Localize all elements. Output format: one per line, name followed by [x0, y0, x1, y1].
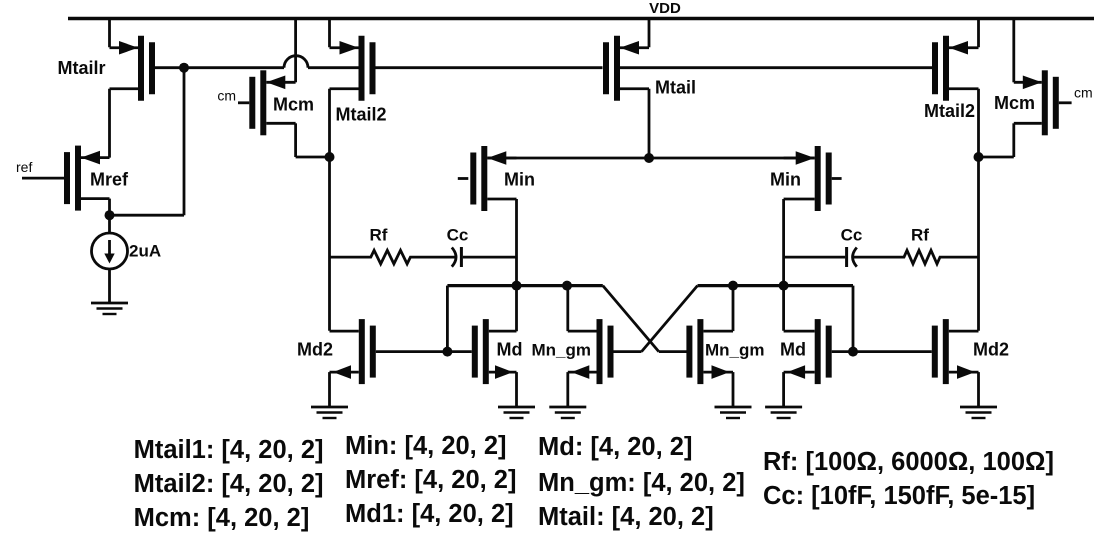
- svg-text:Mtail1: [4, 20, 2]: Mtail1: [4, 20, 2]: [134, 436, 324, 464]
- ground below Mn_gm left: [549, 407, 586, 418]
- svg-text:Mtailr: Mtailr: [57, 58, 105, 78]
- transistor Mtail: [603, 19, 696, 101]
- junction left cascode node: [325, 152, 335, 162]
- label component values column 4: [763, 448, 1054, 510]
- svg-text:VDD: VDD: [649, 0, 681, 17]
- wire node to feedback riser: [110, 214, 185, 217]
- wire right bus drop to gate node: [852, 286, 855, 352]
- label device sizes column 2: [345, 432, 516, 528]
- wire bias line segment Mtail2 to Mtail: [376, 66, 603, 69]
- svg-text:Cc: Cc: [841, 226, 863, 245]
- svg-text:Mn_gm: Mn_gm: [705, 341, 765, 360]
- wire left output bus: [447, 284, 602, 287]
- current source I1 2uA: [92, 215, 162, 303]
- transistor Min left: [458, 146, 535, 211]
- wire cross couple right bus to left Mn_gm gate: [614, 286, 698, 352]
- junction right bus Min drain: [779, 281, 789, 291]
- ground below Md2 left: [311, 407, 348, 418]
- svg-text:Mtail2: Mtail2: [924, 101, 975, 121]
- svg-text:2uA: 2uA: [129, 242, 161, 261]
- junction left bus Mn_gm drain: [562, 281, 572, 291]
- svg-text:Cc: Cc: [447, 226, 469, 245]
- svg-text:Md: [4, 20, 2]: Md: [4, 20, 2]: [538, 433, 692, 461]
- wire Mtail2 right drain down: [977, 89, 980, 157]
- svg-text:Mtail: [4, 20, 2]: Mtail: [4, 20, 2]: [538, 503, 714, 531]
- resistor Rf left: [330, 226, 456, 264]
- transistor Mcm left: [238, 19, 314, 136]
- label ref: [16, 159, 32, 175]
- label device sizes column 3: [538, 433, 745, 531]
- svg-text:Rf: Rf: [911, 226, 929, 245]
- svg-text:cm: cm: [217, 88, 236, 104]
- svg-text:Min: Min: [504, 170, 535, 190]
- wire Mcm right drain down: [979, 123, 1014, 157]
- svg-text:cm: cm: [1074, 85, 1093, 101]
- svg-text:Mcm: Mcm: [273, 95, 314, 115]
- svg-text:Min: [4, 20, 2]: Min: [4, 20, 2]: [345, 432, 507, 460]
- svg-text:Md: Md: [497, 340, 523, 360]
- transistor Mtailr: [57, 19, 155, 101]
- junction tail node: [644, 153, 654, 163]
- svg-text:Mtail2: [4, 20, 2]: Mtail2: [4, 20, 2]: [134, 470, 324, 498]
- svg-text:Min: Min: [770, 170, 801, 190]
- ground below Md left: [498, 407, 535, 418]
- svg-text:Md2: Md2: [297, 340, 333, 360]
- wire gate line Md right to Md2 right: [832, 350, 932, 353]
- wire Mref drain down to node: [108, 199, 111, 216]
- transistor Md2 right: [932, 319, 1009, 407]
- wire feedback riser to bias node: [183, 68, 186, 216]
- svg-text:Rf: Rf: [370, 226, 388, 245]
- wire right cascode vertical: [977, 157, 980, 331]
- ground below 2uA source: [91, 303, 128, 314]
- svg-text:Mcm: Mcm: [994, 93, 1035, 113]
- wire Min left drain vertical: [515, 199, 518, 331]
- junction bias node: [179, 63, 189, 73]
- wire hop over Mcm source wire: [284, 56, 308, 68]
- capacitor Cc left: [447, 226, 517, 268]
- svg-text:Mtail: Mtail: [655, 78, 696, 98]
- junction left bus Min drain: [512, 281, 522, 291]
- wire left bus drop to gate node: [446, 286, 449, 352]
- net VDD rail: [68, 17, 1094, 20]
- transistor Md right: [780, 319, 832, 407]
- junction right gate node: [848, 347, 858, 357]
- label VDD: [649, 0, 681, 17]
- wire left cascode vertical: [328, 157, 331, 331]
- transistor Md2 left: [297, 319, 376, 407]
- transistor Mn_gm left: [532, 286, 614, 407]
- wire bias line segment to Mtail2: [308, 66, 359, 69]
- wire input pair source rail: [487, 157, 814, 160]
- junction left gate node: [442, 347, 452, 357]
- transistor Mcm right: [994, 19, 1072, 136]
- ground below Md right: [765, 407, 802, 418]
- svg-text:Rf: [100Ω, 6000Ω, 100Ω]: Rf: [100Ω, 6000Ω, 100Ω]: [763, 448, 1054, 476]
- wire bias line segment Mtail to right Mtail2: [620, 66, 932, 69]
- svg-text:Md1: [4, 20, 2]: Md1: [4, 20, 2]: [345, 500, 514, 528]
- transistor Mref: [22, 146, 129, 211]
- transistor Md left: [472, 319, 523, 407]
- svg-text:Mn_gm: [4, 20, 2]: Mn_gm: [4, 20, 2]: [538, 469, 745, 497]
- label cm right: [1074, 85, 1093, 101]
- svg-text:Mn_gm: Mn_gm: [532, 341, 592, 360]
- svg-text:Mref: Mref: [90, 170, 129, 190]
- label cm left: [217, 88, 236, 104]
- label device sizes column 1: [134, 436, 324, 532]
- junction right cascode node: [974, 152, 984, 162]
- svg-text:Md2: Md2: [973, 340, 1009, 360]
- wire cross couple left bus to right Mn_gm gate: [603, 286, 688, 352]
- junction Mref drain node: [105, 210, 115, 220]
- wire right output bus: [698, 284, 854, 287]
- wire bias line segment from Mtailr gate: [155, 66, 284, 69]
- resistor Rf right: [854, 226, 979, 264]
- junction right bus Mn_gm drain: [728, 281, 738, 291]
- transistor Mn_gm right: [686, 286, 764, 407]
- wire Mcm left drain down: [296, 123, 330, 157]
- ground below Mn_gm right: [715, 407, 752, 418]
- ground below Md2 right: [960, 407, 997, 418]
- svg-text:Md: Md: [780, 340, 806, 360]
- transistor Mtail2 right: [924, 19, 979, 122]
- wire Mtail drain to tail node: [648, 89, 651, 158]
- transistor Mtail2 left: [330, 19, 387, 158]
- svg-text:Mref: [4, 20, 2]: Mref: [4, 20, 2]: [345, 466, 516, 494]
- wire Mtailr drain to Mref source: [108, 89, 111, 158]
- capacitor Cc right: [784, 226, 863, 268]
- wire gate line Md2 left to Md left: [376, 350, 472, 353]
- wire Min right drain vertical: [782, 199, 785, 331]
- svg-text:Mcm: [4, 20, 2]: Mcm: [4, 20, 2]: [134, 504, 310, 532]
- transistor Min right: [770, 146, 842, 211]
- svg-text:ref: ref: [16, 159, 32, 175]
- svg-text:Mtail2: Mtail2: [335, 105, 386, 125]
- svg-text:Cc: [10fF, 150fF, 5e-15]: Cc: [10fF, 150fF, 5e-15]: [763, 482, 1035, 510]
